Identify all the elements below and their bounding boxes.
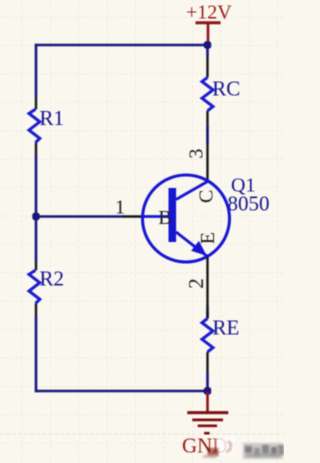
pin 1 base pin — [123, 215, 144, 217]
svg-text:2: 2 — [184, 278, 208, 289]
svg-text:3: 3 — [186, 149, 208, 159]
wire base horizontal — [36, 215, 124, 218]
junction top — [204, 41, 211, 48]
svg-text:E: E — [197, 232, 219, 244]
wire collector upper — [206, 45, 209, 57]
svg-text:R2: R2 — [40, 267, 65, 291]
resistor RE — [202, 306, 239, 373]
svg-text:1: 1 — [115, 197, 125, 219]
resistor R1 — [29, 97, 64, 154]
svg-text:8050: 8050 — [228, 192, 270, 216]
wire left rail lower — [35, 315, 38, 392]
svg-text:R1: R1 — [40, 106, 65, 130]
wire left rail middle — [35, 154, 38, 262]
ground GND — [182, 392, 228, 458]
svg-text:RE: RE — [213, 316, 240, 340]
junction base — [32, 213, 39, 220]
wire collector lower — [206, 126, 209, 143]
wire emitter lower — [206, 373, 209, 391]
wire top horizontal — [36, 44, 208, 47]
svg-text:RC: RC — [212, 77, 240, 101]
wire bottom horizontal — [36, 390, 208, 393]
resistor R2 — [29, 262, 64, 315]
wire emitter upper — [206, 311, 209, 318]
junction bottom — [204, 387, 211, 394]
wire left rail upper — [35, 44, 38, 97]
svg-text:C: C — [196, 190, 218, 203]
svg-text:+12V: +12V — [186, 2, 232, 24]
resistor RC — [202, 57, 240, 126]
watermark blur patches — [203, 437, 284, 459]
transistor Q1 — [143, 175, 230, 262]
faint artifact stripe — [0, 433, 284, 435]
pin 2 emitter pin — [206, 257, 208, 312]
pin 3 collector pin — [206, 143, 208, 181]
power port +12V — [186, 2, 232, 43]
svg-text:B: B — [158, 207, 172, 229]
